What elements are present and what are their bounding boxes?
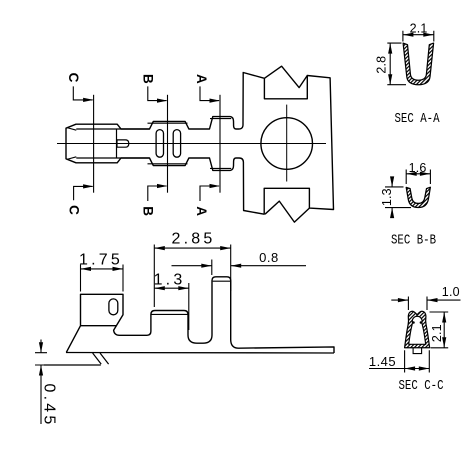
terminal bottom surface line: [66, 352, 334, 355]
label C top: [66, 73, 81, 83]
insulation barrel inner seam top: [76, 128, 149, 130]
label B bottom: [141, 206, 156, 216]
section line B: [167, 95, 169, 193]
section A top leader: [200, 86, 219, 100]
svg-text:B: B: [141, 206, 156, 216]
svg-text:0.45: 0.45: [41, 384, 58, 428]
dimension 1.45 SEC C-C: [369, 350, 429, 372]
dimension 2.1 SEC C-C: [430, 312, 449, 348]
dimension 1.0 SEC C-C: [391, 297, 460, 311]
insulation wing bottom edge: [81, 325, 117, 327]
insulation barrel inner seam bottom: [76, 157, 149, 159]
SEC C-C inner cavity: [409, 316, 426, 344]
front wing seam line: [213, 280, 231, 282]
svg-text:0.8: 0.8: [259, 250, 279, 265]
svg-text:1.6: 1.6: [409, 161, 427, 175]
bottom zigzag cut: [265, 201, 309, 222]
dimension 0.45: [35, 340, 47, 425]
SEC C-C wire dots: [412, 321, 415, 324]
label A top: [194, 74, 209, 84]
svg-text:B: B: [141, 74, 156, 84]
circle vertical crosshair: [286, 105, 288, 182]
dimension 0.8: [172, 260, 307, 276]
section line A: [219, 95, 221, 193]
dimension 2.8 SEC A-A: [387, 43, 406, 85]
section C top leader: [73, 86, 92, 100]
wire wing seam line: [152, 313, 188, 315]
wire barrel seam top: [148, 122, 188, 124]
dimension 2.85: [154, 245, 230, 308]
svg-text:1.3: 1.3: [154, 272, 186, 289]
SEC A-A hatched section: [403, 43, 434, 85]
dimension 1.3 SEC B-B: [385, 179, 411, 218]
svg-text:2.85: 2.85: [172, 231, 216, 248]
barrel inner edge left diagonals: [67, 128, 76, 160]
top zigzag cut: [264, 66, 307, 87]
svg-text:SEC B-B: SEC B-B: [391, 233, 436, 249]
insulation wing slot: [109, 299, 118, 315]
svg-text:1.75: 1.75: [79, 251, 123, 268]
front crimp seam top: [210, 118, 231, 120]
SEC C-C hatched section: [405, 311, 430, 347]
SEC C-C bottom tab: [413, 348, 422, 354]
section line C: [93, 95, 95, 193]
wire barrel slot left: [156, 130, 163, 158]
cut-off tail bottom edge: [44, 364, 101, 366]
part centerline: [57, 143, 326, 145]
svg-text:1.3: 1.3: [380, 188, 394, 206]
section B top leader: [148, 86, 167, 100]
svg-text:A: A: [194, 206, 209, 216]
label A bottom: [194, 206, 209, 216]
side view upper outline: [66, 277, 334, 353]
svg-text:1.0: 1.0: [442, 285, 460, 299]
contact hole circle: [261, 118, 313, 170]
wire barrel seam bottom: [148, 163, 188, 165]
label C bottom: [67, 205, 82, 215]
svg-text:2.1: 2.1: [410, 21, 428, 35]
dimension 2.1 SEC A-A: [403, 31, 434, 42]
section A bottom leader: [200, 186, 219, 201]
SEC B-B hatched section: [406, 187, 430, 207]
svg-text:2.8: 2.8: [374, 56, 388, 74]
section B bottom leader: [148, 186, 167, 201]
center tongue: [117, 140, 129, 147]
svg-text:1.45: 1.45: [369, 354, 396, 369]
svg-text:SEC A-A: SEC A-A: [395, 111, 440, 127]
svg-text:A: A: [194, 74, 209, 84]
section C bottom leader: [74, 186, 93, 200]
wire barrel slot right: [173, 130, 180, 158]
top view terminal outline: [66, 73, 334, 215]
svg-text:C: C: [67, 205, 82, 215]
carrier cut mark: [93, 353, 109, 364]
dimension 1.75: [81, 265, 124, 292]
front crimp seam bottom: [210, 167, 231, 169]
dimension 1.3: [154, 283, 189, 330]
barrel inner edge right vertical: [116, 129, 118, 158]
svg-text:2.1: 2.1: [430, 324, 444, 342]
label B top: [141, 74, 156, 84]
dimension 1.6 SEC B-B: [406, 170, 430, 185]
svg-text:C: C: [66, 73, 81, 83]
svg-text:SEC C-C: SEC C-C: [399, 378, 444, 394]
